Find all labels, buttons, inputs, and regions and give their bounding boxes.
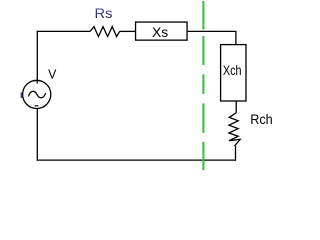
wire: between Rs and Xs box: [120, 30, 135, 32]
wire: top-left vertical (top rail down to source top): [36, 31, 38, 80]
resistor Rs: [90, 27, 120, 37]
wire: Xch bottom to Rch top: [235, 101, 237, 113]
wire: top-right vertical into Xch: [235, 31, 237, 45]
boundary line: bottom green dash (drawn over bottom rail): [202, 142, 204, 170]
ac source V (circle): [23, 80, 51, 108]
wire: top rail left segment: [37, 30, 90, 32]
reactance box Xs: [136, 22, 188, 40]
wire: top rail right segment: [188, 30, 237, 32]
resistor Rch: [229, 113, 240, 146]
wire: bottom rail: [37, 159, 236, 161]
svg-text:Xs: Xs: [152, 25, 168, 40]
wire: bottom-left vertical (source bottom to bottom rail): [36, 109, 38, 161]
ac source sine symbol: [29, 91, 46, 97]
wire: Rch bottom to bottom rail: [235, 146, 237, 161]
reactance box Xch: [221, 45, 246, 101]
svg-text:Rs: Rs: [95, 5, 113, 21]
boundary line (green dashed divider): [202, 1, 204, 133]
+ polarity mark: [34, 78, 40, 84]
svg-text:Rch: Rch: [250, 111, 273, 127]
svg-text:Xch: Xch: [223, 62, 242, 78]
- polarity mark: [35, 105, 39, 107]
artifact: blue tick on circle left edge: [20, 93, 22, 99]
svg-text:V: V: [48, 67, 56, 82]
